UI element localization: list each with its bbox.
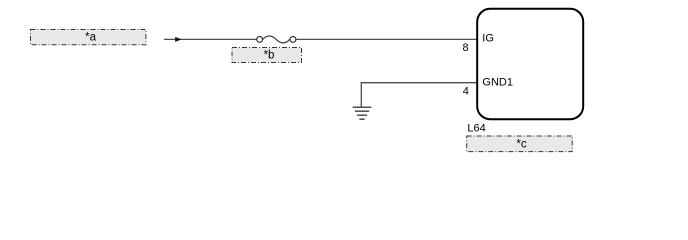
- svg-text:GND1: GND1: [482, 76, 513, 88]
- svg-text:4: 4: [463, 85, 469, 97]
- svg-text:IG: IG: [482, 33, 494, 45]
- svg-text:8: 8: [462, 42, 468, 54]
- svg-text:L64: L64: [467, 122, 485, 134]
- svg-text:*a: *a: [85, 31, 96, 43]
- svg-text:*b: *b: [264, 49, 275, 61]
- svg-text:*c: *c: [516, 139, 526, 151]
